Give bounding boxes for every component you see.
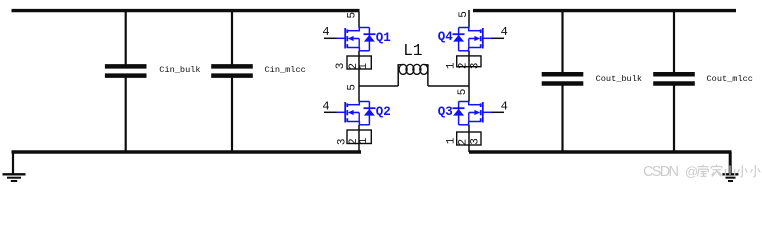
- ground right: [722, 152, 738, 181]
- pin box Q1 source pins: [347, 56, 371, 69]
- svg-text:4: 4: [501, 99, 508, 113]
- svg-text:Q4: Q4: [438, 30, 454, 44]
- wire Q1 drain from input bus: [358, 12, 360, 28]
- wire bottom-left ground bus: [12, 150, 362, 153]
- svg-text:Q2: Q2: [376, 105, 391, 119]
- wire Q1 gate stub: [324, 37, 337, 39]
- wire Q4 drain from output bus: [468, 10, 470, 28]
- wire Q3 gate stub: [492, 111, 505, 113]
- capacitor Cout_mlcc: [653, 12, 695, 151]
- svg-text:4: 4: [322, 99, 329, 113]
- wire top-right output bus: [473, 9, 736, 12]
- svg-text:CSDN: CSDN: [643, 164, 679, 180]
- svg-text:1: 1: [445, 137, 457, 144]
- svg-text:@: @: [685, 164, 698, 179]
- pin box Q4 drain pins: [457, 56, 481, 67]
- ground left: [3, 152, 26, 181]
- svg-text:1: 1: [358, 137, 370, 144]
- transistor Q1: [336, 27, 376, 51]
- svg-text:3: 3: [470, 138, 482, 145]
- svg-text:5: 5: [346, 12, 358, 19]
- wire Q1 source to Q2 drain (switch node): [358, 51, 360, 102]
- wire bottom-right ground bus: [469, 150, 732, 153]
- svg-text:4: 4: [322, 25, 329, 39]
- svg-text:Cin_mlcc: Cin_mlcc: [265, 65, 306, 75]
- transistor Q4: [453, 27, 493, 51]
- svg-text:5: 5: [457, 89, 469, 96]
- wire top-left input bus: [12, 9, 360, 12]
- svg-text:3: 3: [470, 63, 482, 70]
- wire Q2 source to ground bus: [358, 125, 360, 152]
- capacitor Cin_mlcc: [211, 12, 253, 151]
- svg-text:Q1: Q1: [376, 31, 391, 45]
- inductor L1: [398, 64, 429, 86]
- watermark chinese glyphs: [698, 165, 761, 178]
- pin box Q3 source pins: [457, 132, 481, 145]
- svg-text:5: 5: [458, 11, 470, 18]
- wire Q4 source to Q3 drain (switch node): [468, 51, 470, 102]
- svg-text:2: 2: [458, 139, 470, 146]
- svg-text:Q3: Q3: [438, 105, 453, 119]
- wire Q3 source to ground bus: [468, 125, 470, 152]
- wire L1 to switch node right: [428, 85, 469, 87]
- svg-text:1: 1: [445, 62, 457, 69]
- svg-text:4: 4: [501, 25, 508, 39]
- transistor Q2: [336, 101, 376, 125]
- pin box Q2 source pins: [347, 130, 371, 144]
- capacitor Cin_bulk: [105, 12, 147, 151]
- svg-text:3: 3: [335, 63, 347, 70]
- wire Q2 gate stub: [324, 111, 337, 113]
- svg-text:Cin_bulk: Cin_bulk: [159, 65, 200, 75]
- svg-text:1: 1: [358, 63, 370, 70]
- svg-text:L1: L1: [403, 42, 422, 60]
- svg-text:2: 2: [458, 62, 470, 69]
- transistor Q3: [453, 101, 493, 125]
- svg-text:Cout_mlcc: Cout_mlcc: [707, 74, 753, 84]
- wire Q4 gate stub: [492, 37, 505, 39]
- svg-text:5: 5: [347, 84, 359, 91]
- wire switch node left to L1: [359, 85, 398, 87]
- capacitor Cout_bulk: [542, 12, 584, 151]
- svg-text:Cout_bulk: Cout_bulk: [596, 74, 642, 84]
